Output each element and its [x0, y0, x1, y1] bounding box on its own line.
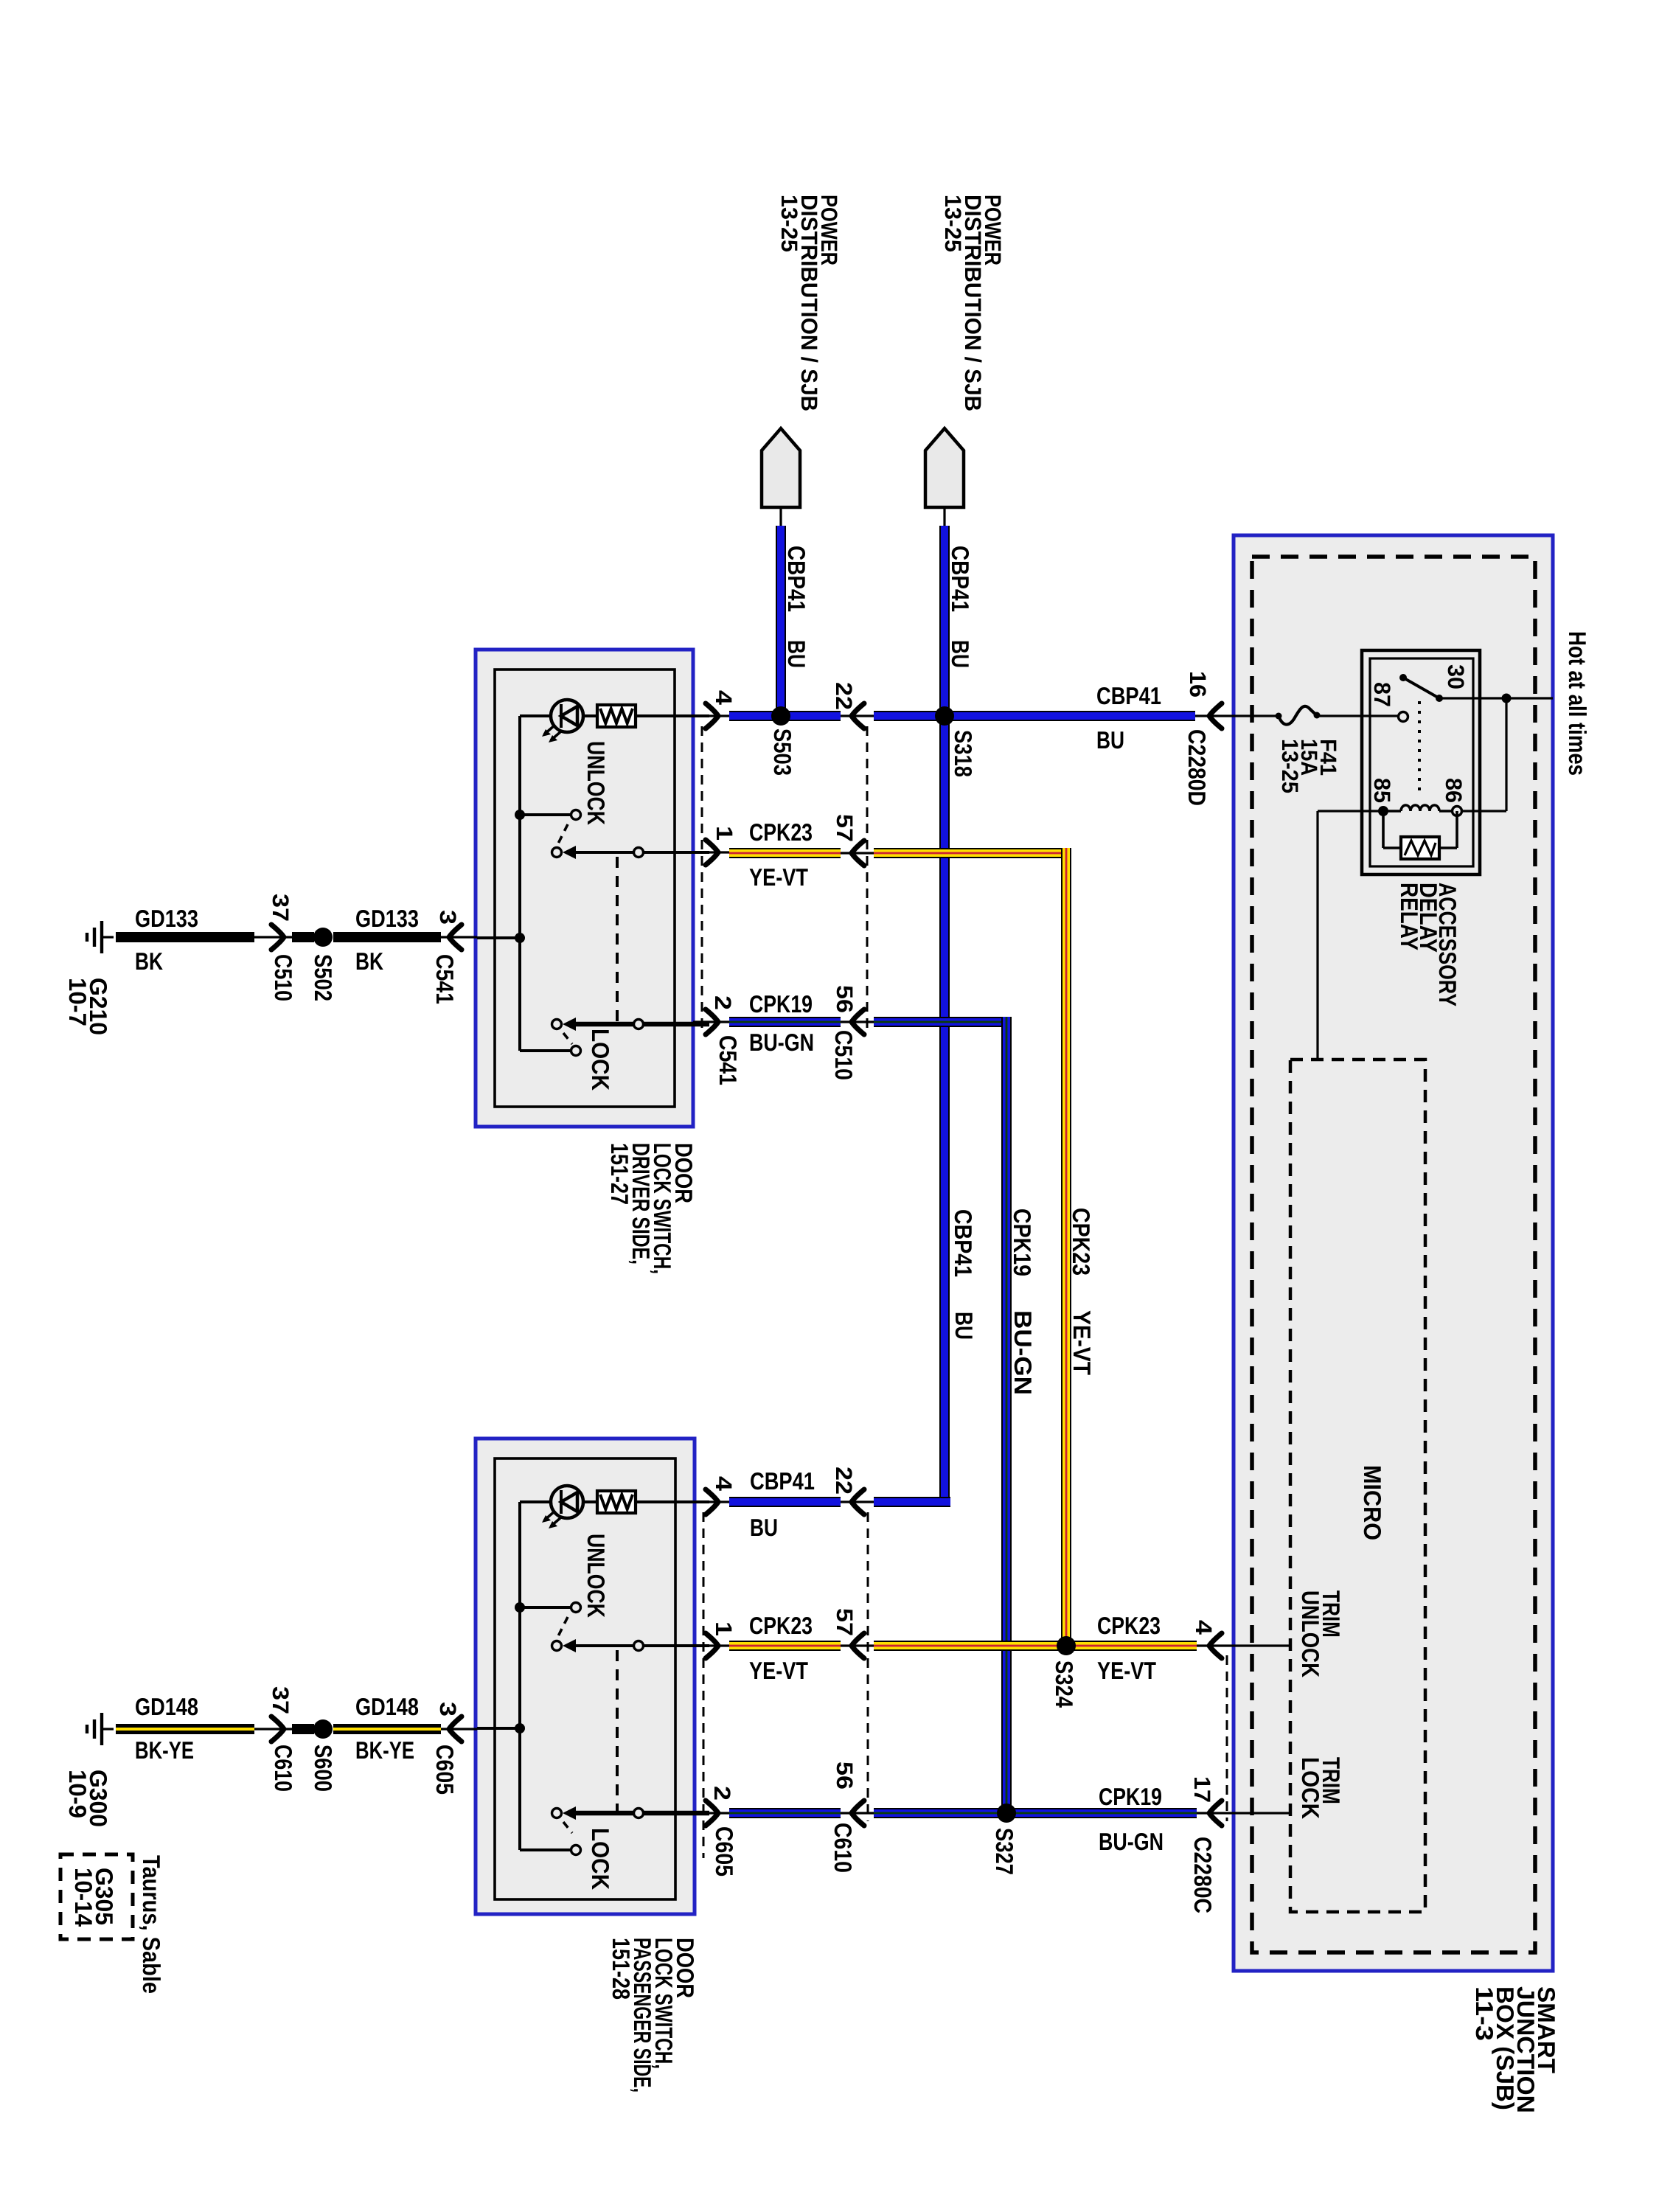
svg-text:C605: C605: [431, 1745, 459, 1795]
off-page connector POWER DISTRIBUTION 2: [925, 428, 964, 507]
wire CPK19 row2 segment A: [729, 1808, 841, 1818]
svg-text:16: 16: [1185, 671, 1211, 698]
pin3 wire to connector passenger: [477, 1727, 520, 1730]
resistor passenger: [597, 1491, 636, 1513]
svg-text:UNLOCK: UNLOCK: [1297, 1590, 1324, 1677]
svg-text:S502: S502: [310, 954, 337, 1001]
label TRIM LOCK: [1297, 1757, 1345, 1819]
svg-text:1: 1: [711, 1621, 737, 1636]
wire stub to splice S600: [292, 1724, 314, 1734]
svg-text:S324: S324: [1051, 1660, 1078, 1708]
wire 86 to hot junction vertical: [1461, 698, 1506, 811]
lead pentagon 1: [779, 507, 782, 529]
label G305 10-14: [70, 1868, 118, 1927]
unlock arm dashed link: [558, 824, 568, 844]
svg-text:BU-GN: BU-GN: [1099, 1828, 1164, 1855]
SJB inner dashed boundary: [1252, 557, 1535, 1952]
unlock arm dashed link passenger: [558, 1617, 568, 1636]
svg-text:CBP41: CBP41: [750, 1467, 815, 1495]
wire GD133 BK segment 2: [333, 932, 441, 942]
pin 3 arrow C541 ground: [441, 925, 477, 950]
splice S318: [935, 706, 954, 726]
label CBP41 BU feed 2: [947, 546, 974, 668]
unlock fixed contact wire passenger: [520, 1606, 571, 1609]
svg-text:151-28: 151-28: [608, 1938, 635, 2000]
passenger switch left rail wire: [520, 1502, 551, 1850]
wire lamp to resistor passenger: [583, 1500, 597, 1503]
pin 4 connector arrow driver: [693, 703, 729, 728]
svg-text:YE-VT: YE-VT: [1068, 1310, 1096, 1375]
svg-text:CPK23: CPK23: [749, 818, 813, 846]
svg-text:BU: BU: [947, 640, 974, 668]
resistor driver: [597, 705, 636, 727]
wire CPK19 vertical run: [1001, 1017, 1012, 1813]
wire micro trim unlock: [1214, 1644, 1290, 1646]
svg-text:Taurus, Sable: Taurus, Sable: [138, 1855, 165, 1994]
wire CBP41 bus segment A: [729, 711, 841, 721]
off-page connector POWER DISTRIBUTION 1: [762, 428, 800, 507]
svg-text:CBP41: CBP41: [950, 1209, 977, 1277]
G305 dashed box (Taurus, Sable): [60, 1854, 133, 1939]
svg-text:GD148: GD148: [135, 1693, 198, 1720]
label GD133 BK (1): [135, 905, 198, 975]
wire CPK23 row2 segment A: [729, 1641, 841, 1651]
svg-text:BU: BU: [783, 640, 810, 668]
svg-text:37: 37: [268, 1686, 293, 1714]
svg-text:3: 3: [435, 910, 461, 925]
arm mid circle pin2 passenger: [634, 1809, 644, 1818]
wire CPK23 vertical run: [1061, 848, 1071, 1646]
label G210 10-7: [64, 978, 112, 1035]
svg-text:CPK23: CPK23: [1097, 1612, 1161, 1639]
unlock fixed contact: [571, 810, 581, 820]
label CBP41 BU mid vertical: [950, 1209, 978, 1340]
pin3 junction on rail: [515, 933, 525, 943]
svg-text:GD133: GD133: [135, 905, 198, 932]
Smart Junction Box (SJB) outline: [1234, 535, 1553, 1971]
svg-text:BU: BU: [950, 1312, 978, 1340]
svg-text:GD148: GD148: [355, 1693, 419, 1720]
connector C541 dashed line: [701, 726, 703, 1032]
relay switch arm: [1399, 674, 1443, 702]
label CBP41 BU bus: [1096, 682, 1161, 754]
connector 57 arrow row2: [841, 1633, 874, 1658]
svg-text:151-27: 151-27: [606, 1143, 633, 1205]
svg-text:87: 87: [1369, 682, 1395, 707]
coil pin 86 circle: [1453, 807, 1462, 816]
wire CPK19 row1 segment A: [729, 1017, 841, 1027]
accessory delay relay box: [1362, 650, 1480, 874]
coil pin 85 dot: [1378, 806, 1388, 816]
svg-text:CPK23: CPK23: [1068, 1208, 1095, 1276]
relay coil: [1383, 805, 1453, 811]
svg-text:10-9: 10-9: [64, 1770, 91, 1818]
svg-text:CPK23: CPK23: [749, 1612, 813, 1639]
relay contact 87: [1399, 712, 1408, 722]
connector C605 dashed line: [703, 1512, 705, 1858]
svg-text:C610: C610: [829, 1823, 857, 1873]
wire CBP41 passenger segment B: [874, 1497, 950, 1507]
label CPK19 BU-GN row2: [1099, 1783, 1164, 1855]
svg-text:C2280C: C2280C: [1189, 1837, 1217, 1913]
pin 4 arrow trim unlock: [1209, 1633, 1222, 1658]
wire GD133 BK segment 1: [116, 932, 254, 942]
label CPK23 YE-VT mid vertical: [1068, 1208, 1096, 1375]
mechanical link dashed passenger: [616, 1650, 619, 1811]
wire arm to pin2 exit passenger: [643, 1811, 709, 1816]
label CPK19 BU-GN mid vertical: [1009, 1208, 1037, 1395]
pin3 wire to connector: [477, 936, 520, 939]
svg-text:4: 4: [1191, 1620, 1217, 1635]
svg-text:LOCK: LOCK: [587, 1029, 614, 1091]
label POWER DISTRIBUTION / SJB 13-25 (1): [776, 195, 842, 411]
lock arm dashed link: [563, 1033, 572, 1044]
splice S503: [771, 706, 790, 726]
MICRO dashed box: [1290, 1060, 1425, 1912]
junction dot hot line: [1502, 694, 1512, 703]
wire stub to splice S502: [292, 932, 314, 942]
pin 2 connector arrow passenger: [693, 1801, 729, 1826]
wire resistor to pin 4 passenger: [636, 1500, 709, 1503]
svg-text:BU: BU: [1096, 726, 1124, 754]
wire arm to pin1 exit: [643, 851, 709, 854]
splice S502: [313, 928, 333, 947]
label ACCESSORY DELAY RELAY: [1396, 883, 1461, 1006]
connector 22 arrow driver: [841, 703, 874, 728]
pin 2 connector arrow driver: [693, 1009, 729, 1034]
label SMART JUNCTION BOX (SJB) 11-3: [1471, 1986, 1560, 2113]
svg-text:C610: C610: [270, 1745, 297, 1792]
wire CBP41 passenger segment A: [729, 1497, 841, 1507]
pin 16 arrow into SJB: [1195, 703, 1279, 728]
connector 37 arrow C510 ground: [254, 925, 292, 950]
svg-text:CBP41: CBP41: [947, 546, 974, 612]
svg-text:56: 56: [832, 985, 858, 1013]
splice S600: [313, 1719, 333, 1739]
switch arm pin2 driver (thick): [552, 1018, 639, 1031]
svg-text:S318: S318: [950, 730, 977, 777]
arm mid circle pin1: [634, 848, 644, 858]
svg-text:LOCK: LOCK: [1297, 1757, 1324, 1819]
svg-text:37: 37: [268, 894, 293, 922]
wire CPK19 row2 segment B: [874, 1808, 1197, 1818]
svg-text:85: 85: [1369, 778, 1395, 803]
svg-text:17: 17: [1189, 1776, 1215, 1803]
wire relay 30 to hot junction: [1439, 697, 1553, 699]
junction on rail unlock passenger: [515, 1602, 525, 1613]
wire into SJB trim lock: [1197, 1812, 1214, 1814]
svg-text:57: 57: [832, 1608, 858, 1636]
svg-text:S327: S327: [991, 1828, 1018, 1875]
svg-text:MICRO: MICRO: [1359, 1465, 1386, 1540]
unlock fixed contact passenger: [571, 1603, 581, 1613]
svg-text:2: 2: [709, 1786, 735, 1801]
label GD148 BK-YE (2): [355, 1693, 419, 1764]
label POWER DISTRIBUTION / SJB 13-25 (2): [940, 195, 1006, 411]
wire CPK23 row2 segment B: [874, 1641, 1197, 1651]
svg-text:S503: S503: [769, 728, 796, 776]
unlock fixed contact wire driver: [520, 813, 571, 816]
pin 1 connector arrow passenger: [693, 1633, 729, 1658]
door lock switch driver side box: [476, 650, 693, 1127]
lock fixed contact passenger: [571, 1846, 581, 1855]
svg-text:BU-GN: BU-GN: [749, 1029, 814, 1056]
label G300 10-9: [64, 1770, 112, 1827]
svg-text:YE-VT: YE-VT: [749, 863, 808, 891]
label DOOR LOCK SWITCH, DRIVER SIDE, 151-27: [606, 1143, 698, 1274]
relay dotted actuator link: [1418, 701, 1421, 797]
wire CPK19 row1 segment B: [874, 1017, 1012, 1027]
wire coil 85 to micro: [1318, 811, 1383, 1060]
svg-text:BK: BK: [355, 947, 383, 975]
indicator lamp passenger: [542, 1486, 583, 1528]
wire lamp to resistor: [583, 714, 597, 717]
pin 17 arrow trim lock: [1209, 1801, 1222, 1826]
svg-text:CPK19: CPK19: [749, 990, 813, 1018]
svg-text:CPK19: CPK19: [1099, 1783, 1162, 1810]
connector 22 arrow passenger: [841, 1489, 874, 1514]
svg-text:4: 4: [711, 690, 737, 706]
svg-text:56: 56: [832, 1761, 858, 1790]
svg-text:1: 1: [712, 826, 737, 841]
driver switch left rail wire: [520, 716, 551, 1051]
svg-text:13-25: 13-25: [776, 195, 802, 252]
arm mid circle pin1 passenger: [634, 1641, 644, 1651]
splice S324: [1057, 1636, 1076, 1655]
lead pentagon 2: [943, 507, 945, 529]
svg-text:YE-VT: YE-VT: [749, 1657, 808, 1684]
splice S327: [997, 1804, 1016, 1823]
switch arm pin2 passenger (thick): [552, 1806, 639, 1820]
label CBP41 BU passenger: [750, 1467, 815, 1541]
svg-text:BK: BK: [135, 947, 163, 975]
svg-text:BK-YE: BK-YE: [135, 1736, 194, 1764]
label TRIM UNLOCK: [1297, 1590, 1345, 1677]
svg-text:C605: C605: [711, 1826, 738, 1877]
connector 57 arrow row1: [841, 841, 874, 866]
wire arm to pin1 exit passenger: [643, 1644, 709, 1647]
label GD133 BK (2): [355, 905, 419, 975]
mechanical link dashed driver: [616, 857, 619, 1022]
pin 4 connector arrow passenger: [693, 1489, 729, 1514]
indicator lamp driver: [542, 700, 583, 742]
svg-text:86: 86: [1441, 778, 1467, 803]
svg-text:C2280D: C2280D: [1183, 729, 1211, 806]
label F41 15A 13-25: [1277, 739, 1341, 793]
svg-text:BU: BU: [750, 1514, 778, 1541]
svg-text:C510: C510: [270, 954, 297, 1001]
label CPK23 YE-VT row2 left: [749, 1612, 813, 1684]
label CPK23 YE-VT row1: [749, 818, 813, 891]
svg-text:C541: C541: [431, 954, 459, 1004]
label DOOR LOCK SWITCH, PASSENGER SIDE, 151-28: [608, 1938, 699, 2093]
door lock switch passenger side box: [476, 1439, 695, 1914]
svg-text:S600: S600: [310, 1745, 337, 1792]
label CBP41 BU feed 1: [783, 546, 810, 668]
svg-text:22: 22: [831, 682, 857, 710]
label CPK19 BU-GN row1: [749, 990, 814, 1056]
wire micro trim lock: [1214, 1812, 1290, 1814]
lock fixed contact: [571, 1046, 581, 1056]
fuse F41 15A: [1276, 706, 1321, 725]
lock fixed contact wire passenger: [520, 1848, 571, 1851]
pin 3 arrow C605 ground: [441, 1717, 477, 1742]
svg-text:Hot at all times: Hot at all times: [1564, 631, 1591, 776]
svg-text:BK-YE: BK-YE: [355, 1736, 414, 1764]
label CPK23 YE-VT row2 right: [1097, 1612, 1161, 1684]
svg-text:10-14: 10-14: [70, 1868, 97, 1927]
wire GD148 BK-YE segment 1: [116, 1724, 254, 1734]
wire CBP41 feed 2 and vertical run: [939, 526, 950, 1507]
ground G300: [87, 1713, 114, 1745]
switch arm pin1 driver: [552, 846, 639, 859]
arm mid circle pin2: [634, 1020, 644, 1029]
junction on rail unlock: [515, 810, 525, 820]
svg-text:RELAY: RELAY: [1396, 883, 1423, 950]
wire resistor to pin 4: [636, 714, 709, 717]
svg-text:CPK19: CPK19: [1009, 1208, 1036, 1276]
connector C510 dashed line: [866, 726, 869, 1032]
wire CPK23 row1 segment A: [729, 848, 841, 858]
svg-text:C510: C510: [830, 1030, 858, 1080]
lock arm dashed link passenger: [563, 1822, 572, 1833]
svg-text:30: 30: [1443, 664, 1469, 689]
svg-text:4: 4: [711, 1476, 737, 1492]
svg-text:11-3: 11-3: [1471, 1986, 1498, 2041]
svg-text:10-7: 10-7: [64, 978, 91, 1026]
svg-text:3: 3: [435, 1702, 461, 1717]
connector C2280 dashed line: [1226, 1655, 1228, 1821]
wire into SJB trim unlock: [1197, 1644, 1214, 1646]
svg-text:BU-GN: BU-GN: [1009, 1310, 1037, 1395]
pin 1 connector arrow driver: [693, 840, 729, 865]
wire CBP41 bus segment B: [874, 711, 1195, 721]
svg-text:LOCK: LOCK: [587, 1828, 614, 1890]
label GD148 BK-YE (1): [135, 1693, 198, 1764]
svg-text:YE-VT: YE-VT: [1097, 1657, 1156, 1684]
connector 56 arrow row2: [841, 1801, 874, 1826]
wire CPK23 row1 segment B: [874, 848, 1071, 858]
svg-text:C541: C541: [714, 1035, 742, 1085]
svg-text:CBP41: CBP41: [1096, 682, 1161, 709]
svg-text:22: 22: [831, 1467, 857, 1495]
svg-text:57: 57: [832, 814, 858, 842]
svg-text:UNLOCK: UNLOCK: [582, 741, 610, 825]
switch arm pin1 passenger: [552, 1639, 639, 1652]
connector 56 arrow row1: [841, 1009, 874, 1034]
relay shunt resistor: [1383, 811, 1457, 859]
svg-text:13-25: 13-25: [1277, 739, 1303, 793]
wire fuse to relay 87: [1317, 714, 1399, 717]
svg-text:GD133: GD133: [355, 905, 419, 932]
pin3 junction on rail passenger: [515, 1723, 525, 1733]
svg-text:UNLOCK: UNLOCK: [582, 1534, 610, 1618]
wire CBP41 feed 1: [776, 526, 786, 711]
connector 37 arrow C610 ground: [254, 1717, 292, 1742]
wire GD148 BK-YE segment 2: [333, 1724, 441, 1734]
connector C610 dashed line: [867, 1512, 869, 1821]
svg-text:CBP41: CBP41: [783, 546, 810, 612]
wire arm to pin2 exit: [643, 1022, 709, 1027]
svg-text:13-25: 13-25: [940, 195, 966, 252]
ground G210: [87, 921, 114, 953]
svg-text:2: 2: [710, 995, 736, 1010]
lock fixed contact wire driver: [520, 1049, 571, 1052]
